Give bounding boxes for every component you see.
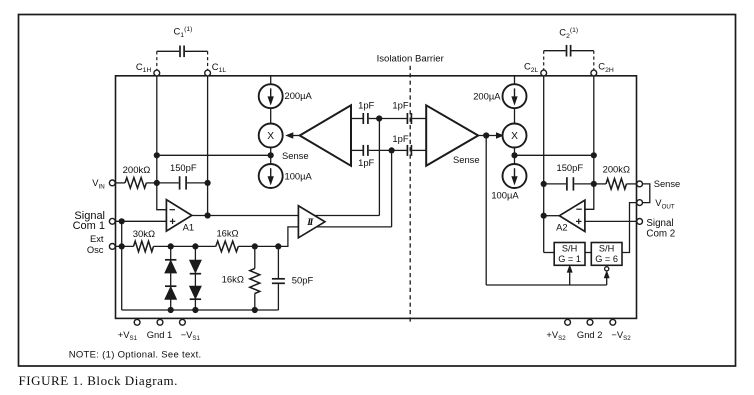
svg-text:G = 6: G = 6 (595, 254, 618, 264)
resistor 16k-ohm vertical zigzag (250, 269, 260, 294)
svg-text:Isolation Barrier: Isolation Barrier (377, 53, 445, 64)
svg-text:16kΩ: 16kΩ (222, 275, 244, 286)
wire step from ext-osc node to II buffer (278, 227, 391, 247)
terminal -VS2 (610, 319, 616, 325)
sense amplifier (right, points right) (426, 105, 478, 166)
capacitor C2 (external) (544, 45, 594, 70)
terminal C2H (591, 70, 597, 76)
svg-text:200kΩ: 200kΩ (603, 164, 630, 175)
terminal Signal Com 2 (637, 219, 643, 225)
wire modulator chain (left) (270, 76, 272, 164)
svg-text:16kΩ: 16kΩ (216, 228, 238, 239)
wire A1 noninverting input (116, 220, 167, 222)
label Signal Com 2 (646, 218, 675, 240)
node open circle under G=6 (605, 267, 609, 271)
svg-text:100µA: 100µA (491, 190, 519, 201)
diode D1 (up, top of column 1) (165, 260, 176, 273)
diode D4 (down, bottom of column 2) (190, 286, 201, 299)
svg-text:Sense: Sense (453, 154, 480, 165)
svg-text:S/H: S/H (562, 243, 577, 253)
wire signal com 2 row (585, 220, 637, 222)
multiplier X (left) (259, 124, 283, 148)
svg-text:X: X (267, 131, 274, 142)
wire C2L vertical (544, 76, 555, 253)
svg-text:A1: A1 (183, 222, 194, 233)
capacitor 1pF lower-left (351, 145, 392, 156)
diode D3 (down, top of column 2) (190, 260, 201, 274)
terminal +VS2 (565, 319, 571, 325)
capacitor C1 (external) (157, 46, 208, 71)
label 200k-ohm (left) (123, 165, 151, 176)
wire diode column 2 (194, 246, 196, 310)
wire 200k row (right) (594, 183, 637, 185)
svg-text:30kΩ: 30kΩ (133, 229, 155, 240)
multiplier X (right) (503, 124, 527, 148)
op-amp A2 (559, 200, 585, 231)
diode D2 (up, bottom of column 1) (165, 286, 176, 299)
current source 100uA (right) (503, 164, 527, 188)
label A1 (183, 222, 194, 233)
current source 200uA (right) (503, 84, 527, 108)
label C2 (559, 27, 578, 40)
svg-text:S/H: S/H (599, 243, 614, 253)
label Gnd 2 (577, 329, 603, 340)
junction dots (all nets) (119, 115, 597, 313)
block S/H G=6 (591, 243, 622, 266)
wire C1L vertical (207, 76, 209, 216)
isolation barrier dashed line (409, 66, 411, 324)
resistor 16k-ohm horizontal (216, 241, 239, 252)
svg-text:Osc: Osc (87, 244, 104, 255)
terminal +VS1 (134, 319, 140, 325)
terminal C1H (154, 70, 160, 76)
label 16k-ohm vertical (222, 275, 244, 286)
capacitor 50pF (272, 246, 285, 310)
wire A1 output row (192, 215, 380, 217)
label 150pF (left) (170, 162, 197, 173)
terminal -VS1 (180, 319, 186, 325)
label C1 (174, 26, 193, 39)
label +VS1 (118, 329, 138, 342)
wire A1 inverting input step (157, 183, 167, 210)
label 1pF upper-left (358, 100, 374, 111)
svg-text:1pF: 1pF (392, 133, 408, 144)
terminal Sense (right) (637, 181, 643, 187)
svg-text:X: X (511, 131, 518, 142)
capacitor 150pF (left) (157, 176, 208, 189)
svg-text:Gnd 1: Gnd 1 (147, 329, 173, 340)
label 200k-ohm (right) (603, 164, 630, 175)
wire bottom rail (left) (122, 309, 279, 311)
terminal Gnd 2 (587, 319, 593, 325)
svg-text:Com 1: Com 1 (73, 220, 105, 232)
svg-text:Ext: Ext (90, 233, 104, 244)
isolation barrier label (377, 53, 445, 64)
wire VOUT to S/H G=6 (622, 203, 637, 253)
wire C2H vertical (585, 76, 594, 210)
svg-text:100µA: 100µA (285, 171, 313, 182)
block S/H G=1 (554, 243, 585, 266)
label Gnd 1 (147, 329, 173, 340)
capacitor 1pF lower-right (392, 145, 427, 156)
wire right amp output (478, 135, 496, 137)
label Sense (left) (282, 150, 309, 161)
label 200uA (right) (473, 90, 501, 101)
wire demodulator chain (right) (514, 76, 516, 164)
svg-text:A2: A2 (556, 222, 567, 233)
label C1H (136, 61, 152, 74)
svg-text:200kΩ: 200kΩ (123, 165, 151, 176)
op-amp A1 (166, 200, 191, 232)
svg-text:1pF: 1pF (358, 100, 374, 111)
wire diode column 1 (170, 246, 172, 310)
svg-text:1pF: 1pF (358, 157, 374, 168)
note text (69, 349, 202, 360)
wire upper feedback vertical (378, 119, 380, 216)
label Sense (right amp) (453, 154, 480, 165)
current source 200uA (left) (259, 84, 283, 108)
terminal C2L (541, 70, 547, 76)
label 150pF (right) (557, 162, 584, 173)
wire sense row (right) (515, 154, 594, 156)
label 100uA (left) (285, 171, 313, 182)
svg-text:150pF: 150pF (557, 162, 584, 173)
main enclosure box (116, 76, 637, 319)
label 1pF upper-right (392, 100, 408, 111)
label VIN (92, 177, 104, 190)
label -VS2 (611, 329, 631, 342)
terminal Gnd 1 (157, 319, 163, 325)
terminal VIN (109, 180, 115, 186)
label Signal Com 1 (73, 210, 105, 232)
wire VIN input row (116, 182, 157, 184)
wire ext osc row (116, 245, 279, 247)
label C1L (212, 61, 227, 74)
wire sample drive vertical (485, 136, 487, 286)
arrow into X multiplier (left) (286, 133, 299, 138)
wire sample drive horizontal (486, 284, 607, 286)
capacitor 1pF upper-left (351, 113, 379, 124)
label -VS1 (181, 329, 201, 342)
terminal VOUT (637, 200, 643, 206)
svg-text:200µA: 200µA (285, 90, 313, 101)
label 1pF lower-left (358, 157, 374, 168)
figure caption (19, 373, 178, 388)
wire signal com 1 vertical (121, 221, 123, 310)
label 1pF lower-right (392, 133, 408, 144)
svg-text:Com 2: Com 2 (646, 229, 675, 240)
svg-text:Gnd 2: Gnd 2 (577, 329, 603, 340)
label C2L (524, 61, 539, 74)
wire C1H vertical (156, 76, 158, 183)
svg-text:Sense: Sense (282, 150, 309, 161)
svg-text:Signal: Signal (646, 218, 673, 229)
arrow into X multiplier (right) (496, 133, 503, 138)
resistor 16k-ohm vertical (254, 246, 256, 310)
svg-text:Sense: Sense (654, 178, 681, 189)
terminal Signal Com 1 (109, 218, 115, 224)
svg-text:200µA: 200µA (473, 90, 501, 101)
resistor 30k-ohm (134, 241, 154, 252)
terminal Ext Osc (109, 244, 115, 250)
svg-text:G = 1: G = 1 (558, 254, 581, 264)
capacitor 1pF upper-right (379, 113, 426, 124)
resistor 200k-ohm (right) (606, 179, 627, 190)
label 30k-ohm (133, 229, 155, 240)
arrow sample drive to G=1 (567, 266, 572, 285)
label C2H (598, 61, 614, 74)
wire sense-vout external bracket (643, 184, 650, 203)
svg-text:NOTE: (1) Optional. See text.: NOTE: (1) Optional. See text. (69, 349, 202, 360)
label 50pF (292, 275, 314, 286)
sense amplifier (left, points left) (300, 105, 351, 166)
current source 100uA (left) (259, 164, 283, 188)
label VOUT (655, 197, 675, 210)
svg-text:150pF: 150pF (170, 162, 197, 173)
current buffer II (298, 206, 325, 238)
label A2 (556, 222, 567, 233)
wire lower feedback vertical (391, 150, 393, 227)
label Ext Osc (87, 233, 104, 255)
wire between S/H blocks (585, 252, 591, 254)
label Sense (right) (654, 178, 681, 189)
label 200uA (left) (285, 90, 313, 101)
wire A2 output (544, 215, 560, 217)
arrow sample drive to G=6 (604, 271, 609, 285)
svg-text:FIGURE 1. Block Diagram.: FIGURE 1. Block Diagram. (19, 373, 178, 388)
resistor 200k-ohm input (left) (125, 178, 146, 189)
label +VS2 (546, 329, 566, 342)
capacitor 150pF (right) (544, 177, 594, 190)
svg-text:50pF: 50pF (292, 275, 314, 286)
wire sense row (left) (157, 154, 271, 156)
terminal C1L (205, 70, 211, 76)
label 100uA (right) (491, 190, 519, 201)
svg-text:1pF: 1pF (392, 100, 408, 111)
label 16k-ohm horizontal (216, 228, 238, 239)
